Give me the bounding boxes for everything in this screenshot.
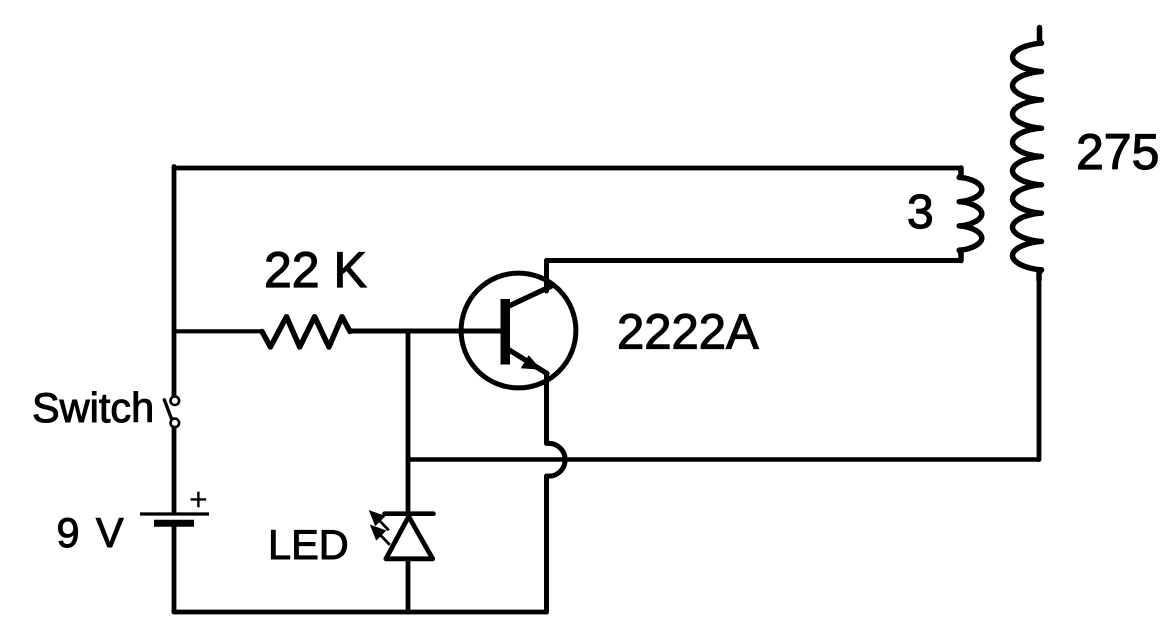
wire emitter vertical with hop over mid rail: [547, 374, 566, 612]
svg-text:2222A: 2222A: [617, 306, 759, 360]
wire base from left vertical to resistor: [174, 329, 262, 333]
transformer primary winding 3: [959, 168, 982, 261]
LED D1 triangle: [386, 517, 433, 559]
battery plus sign: [191, 492, 207, 508]
wire left vertical upper: [172, 167, 177, 397]
switch SW1 lever: [164, 400, 172, 421]
transistor Q1 circle: [461, 273, 576, 388]
wire mid rail: [408, 457, 1039, 462]
wire left vertical lower: [172, 527, 177, 612]
wire left vertical mid: [172, 428, 177, 513]
transistor Q1 emitter arrowhead: [521, 355, 542, 370]
resistor R1 22K zigzag: [262, 317, 350, 347]
LED emission arrow upper: [371, 512, 389, 530]
LED D1 cathode bar: [385, 511, 434, 516]
wire LED bottom segment: [406, 560, 411, 612]
wire collector vertical and horizontal to winding 3: [547, 261, 960, 292]
svg-text:275: 275: [1076, 124, 1159, 180]
svg-text:3: 3: [907, 186, 934, 239]
transformer secondary winding 275: [1013, 28, 1042, 281]
switch SW1 contacts: [171, 396, 180, 427]
transistor Q1 emitter stroke: [504, 347, 548, 374]
LED emission arrow lower: [372, 527, 390, 545]
svg-text:22 K: 22 K: [264, 242, 367, 298]
wire LED branch vertical: [406, 331, 411, 512]
wire bottom rail: [174, 610, 547, 615]
wire right vertical: [1037, 271, 1042, 460]
svg-text:Switch: Switch: [32, 384, 154, 431]
battery B1 positive plate: [140, 512, 209, 515]
transistor Q1 collector stroke: [504, 286, 552, 309]
transistor Q1 base bar: [501, 299, 511, 365]
svg-text:9 V: 9 V: [57, 509, 124, 556]
battery B1 negative plate: [154, 520, 194, 527]
svg-text:LED: LED: [268, 521, 349, 568]
wire base from resistor to transistor: [350, 329, 501, 334]
wire top rail: [174, 166, 961, 171]
